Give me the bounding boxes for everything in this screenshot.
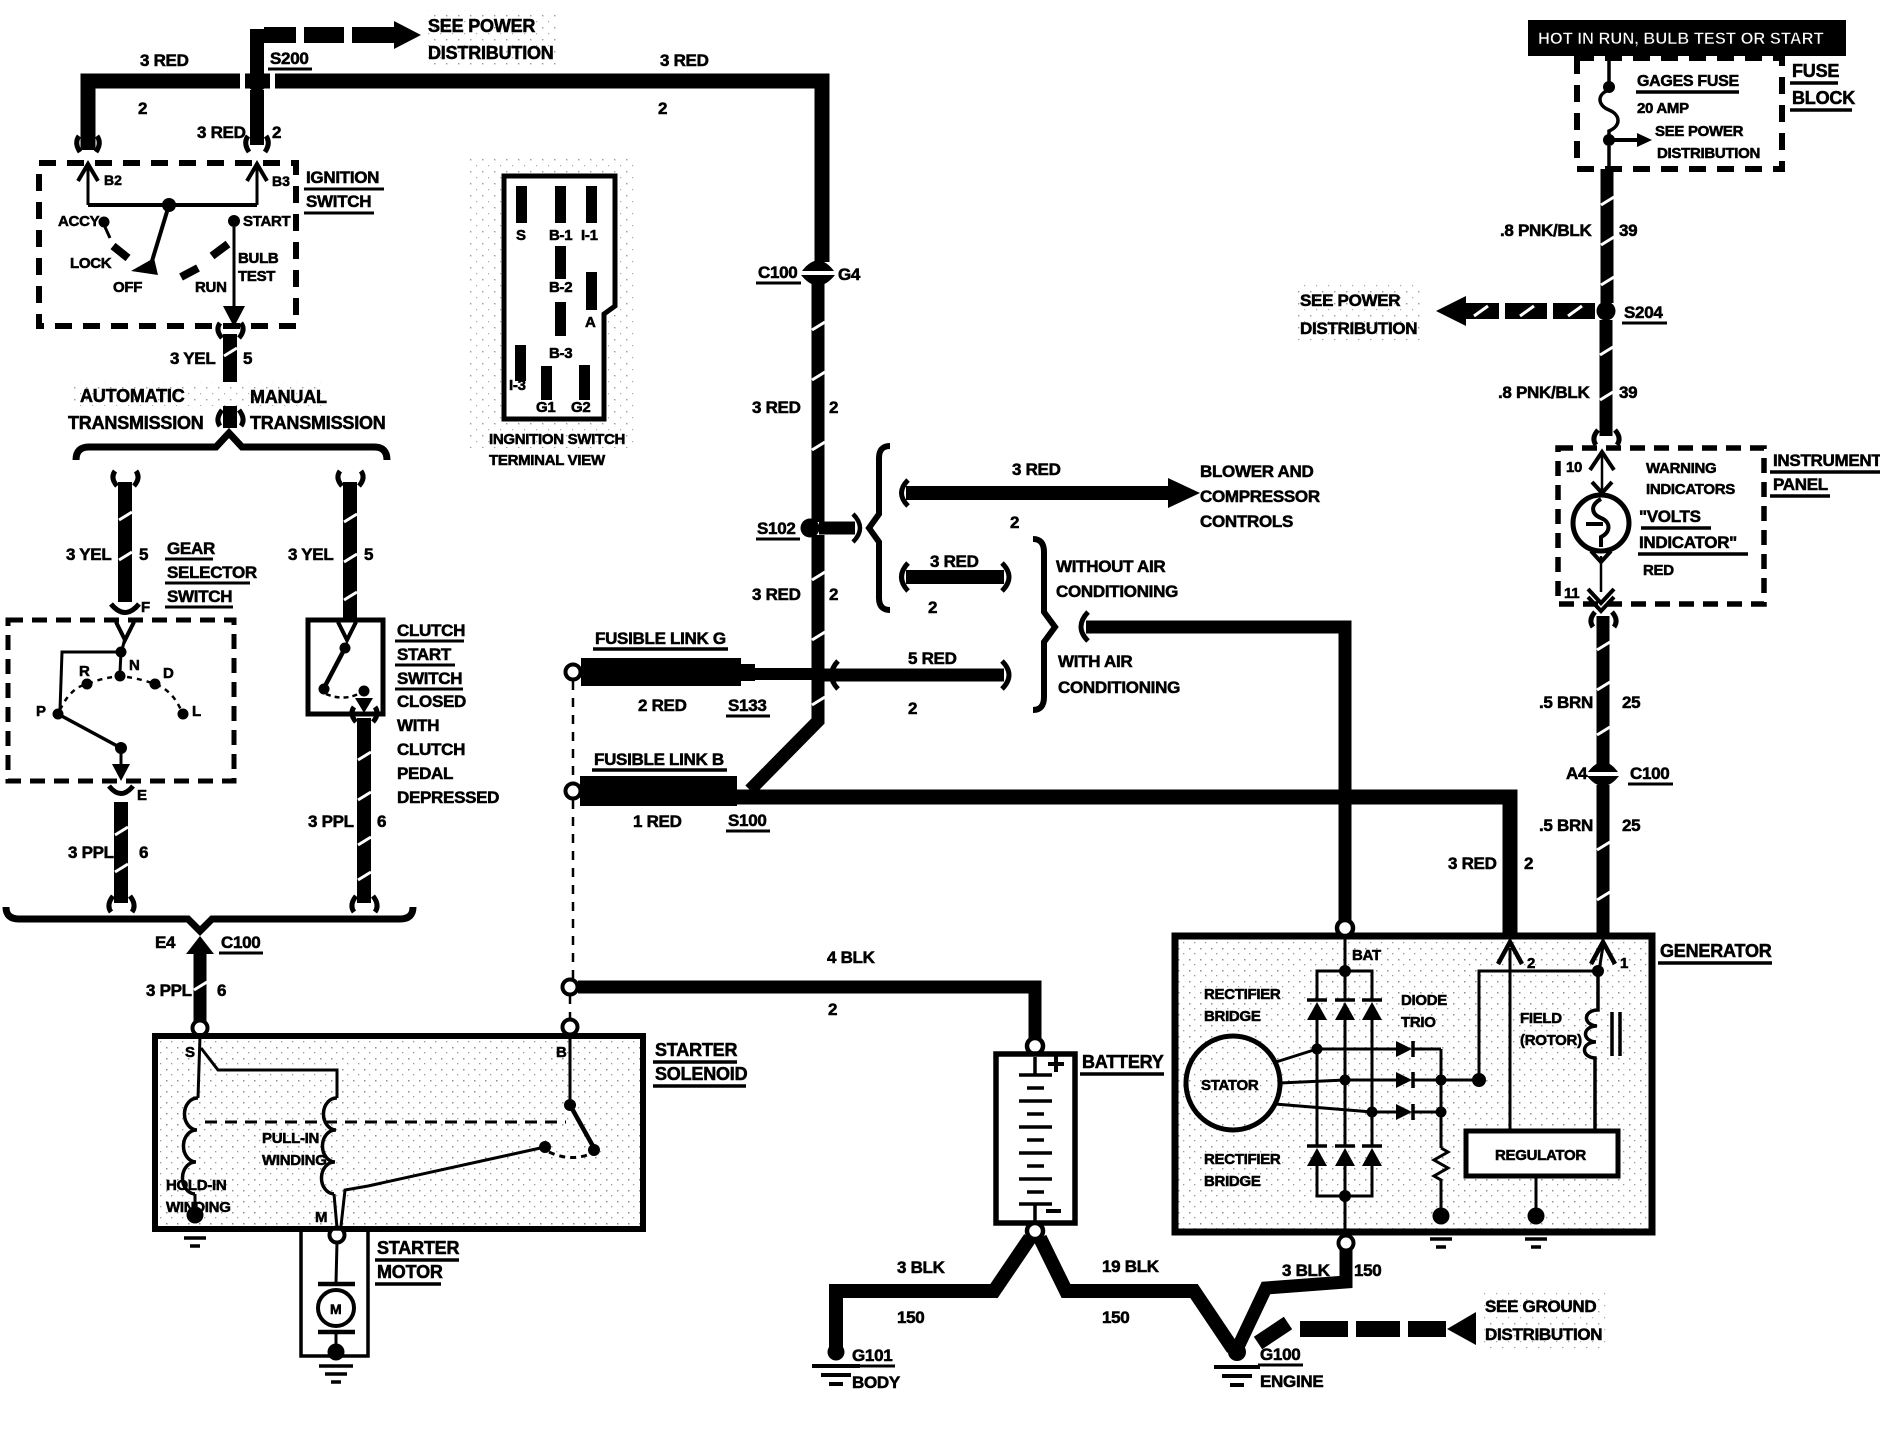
svg-text:I-3: I-3 [509,377,526,394]
svg-text:INDICATORS: INDICATORS [1646,481,1735,498]
svg-text:TRANSMISSION: TRANSMISSION [68,413,204,433]
svg-text:WITH AIR: WITH AIR [1058,652,1132,671]
ground G101 [828,1344,845,1361]
svg-text:N: N [129,657,140,674]
ground starter motor [335,1334,338,1352]
stator circle [1186,1036,1280,1130]
svg-text:FUSIBLE LINK B: FUSIBLE LINK B [594,750,724,769]
wire .8 PNK/BLK fuse to S204 [1607,146,1611,169]
svg-text:BLOWER AND: BLOWER AND [1200,462,1313,481]
slip rings [1610,1012,1614,1056]
battery plus sign [1048,1056,1064,1072]
wire stub up from S200 [250,29,264,74]
svg-text:FIELD: FIELD [1520,1010,1562,1027]
svg-text:MANUAL: MANUAL [250,387,327,407]
rectifier bridge bottom rail [1317,1166,1372,1196]
svg-text:2 RED: 2 RED [638,696,687,715]
brace S102 fan-out [869,446,890,610]
svg-text:S: S [185,1044,195,1061]
svg-text:WINDING: WINDING [262,1152,327,1169]
svg-text:RECTIFIER: RECTIFIER [1204,1151,1281,1168]
svg-text:RUN: RUN [195,279,227,296]
rectifier bridge top rail [1317,971,1372,999]
terminal 1 arrow [1591,942,1615,964]
arrow 5 RED (with air conditioning) [820,669,1004,682]
svg-text:G1: G1 [536,399,555,416]
gear selector switch box (dashed) [8,620,234,781]
svg-text:B-2: B-2 [549,279,572,296]
svg-text:150: 150 [897,1308,924,1327]
svg-text:3 RED: 3 RED [1448,854,1497,873]
svg-text:F: F [141,599,150,616]
svg-text:C100: C100 [758,263,797,282]
svg-text:SWITCH: SWITCH [306,192,371,211]
wire 3 PPL from C100 to starter solenoid S [194,954,207,1021]
svg-text:B: B [556,1044,567,1061]
svg-text:5 RED: 5 RED [908,649,957,668]
svg-text:G2: G2 [571,399,590,416]
starter solenoid box [155,1036,643,1229]
diode trio (three diodes) [1317,1041,1441,1120]
svg-text:3 RED: 3 RED [752,398,801,417]
svg-text:SEE GROUND: SEE GROUND [1485,1297,1596,1316]
wire no.2 to regulator [1509,948,1512,1131]
connector A4 / C100 [1588,762,1618,772]
svg-text:GAGES FUSE: GAGES FUSE [1637,73,1740,90]
arrow see power distribution (in fuse block) [1613,138,1638,142]
svg-text:5: 5 [243,349,252,368]
svg-text:6: 6 [377,812,386,831]
wire contact to M terminal [341,1147,545,1226]
contact START [228,215,240,227]
contact LOCK [113,246,128,258]
arrow F into box [116,622,134,640]
wire 2 RED link G to trunk [755,668,822,680]
svg-text:2: 2 [272,123,281,142]
svg-text:B2: B2 [104,172,122,188]
dashed mechanical link [205,1121,566,1124]
svg-text:IGNITION: IGNITION [306,168,379,187]
lower rectifier diodes [1307,1146,1382,1166]
svg-text:3 RED: 3 RED [660,51,709,70]
svg-text:COMPRESSOR: COMPRESSOR [1200,487,1320,506]
svg-text:2: 2 [658,99,667,118]
svg-text:2: 2 [928,598,937,617]
wire 3 RED drop from S200 to ignition switch B3 [250,90,264,145]
svg-text:DEPRESSED: DEPRESSED [397,788,499,807]
wire bridge to case exit [1344,1196,1347,1236]
terminal B3 arrow into ignition switch [247,164,290,205]
terminal ring generator ground exit [1339,1236,1354,1251]
svg-text:MOTOR: MOTOR [377,1262,443,1282]
svg-text:A4: A4 [1566,764,1588,783]
svg-text:BLOCK: BLOCK [1792,88,1855,108]
svg-text:25: 25 [1622,816,1640,835]
upper rectifier diodes [1307,1000,1382,1020]
svg-text:SWITCH: SWITCH [167,587,232,606]
svg-text:S: S [516,227,526,244]
svg-text:CLUTCH: CLUTCH [397,740,465,759]
svg-text:CONDITIONING: CONDITIONING [1058,678,1180,697]
svg-text:E: E [137,787,147,804]
diode trio output rail [1440,1049,1443,1148]
svg-text:C100: C100 [221,933,260,952]
label WITHOUT AIR CONDITIONING [1056,557,1178,601]
svg-text:B3: B3 [272,173,290,189]
fuse element [1600,90,1618,137]
svg-text:STATOR: STATOR [1201,1077,1259,1094]
svg-text:PANEL: PANEL [1773,475,1828,494]
svg-text:FUSE: FUSE [1792,61,1839,81]
svg-text:INGNITION SWITCH: INGNITION SWITCH [489,431,625,448]
terminal ring fusible link B [566,784,581,799]
wire 3 RED top feed from S200 to ignition switch B2 (horizontal trunk) [88,81,822,262]
svg-text:BAT: BAT [1352,947,1381,964]
wire into gages fuse [1607,56,1611,84]
brace with/without AC [1033,539,1055,710]
svg-text:19 BLK: 19 BLK [1102,1257,1160,1276]
svg-text:CONDITIONING: CONDITIONING [1056,582,1178,601]
svg-text:I-1: I-1 [581,227,598,244]
label STARTER SOLENOID [653,1040,748,1086]
gear selector wiper arm P to pivot [58,714,121,748]
svg-text:BRIDGE: BRIDGE [1204,1008,1261,1025]
wire S to pull-in winding [201,1048,337,1098]
wire flare at B3 wire end [246,136,269,152]
arrow into clutch switch [338,622,356,640]
terminal B2 arrow into ignition switch [78,164,122,205]
starter motor armature M [318,1282,355,1287]
svg-text:TEST: TEST [238,268,275,285]
wire START to box exit [233,227,236,310]
terminal S ring [193,1021,208,1036]
svg-text:11: 11 [1564,585,1579,602]
wire B to solenoid contact [569,1036,572,1103]
hold-in winding coil [182,1098,198,1194]
wire M to motor [336,1242,337,1283]
wire 19 BLK battery to G100 [1040,1238,1233,1349]
svg-text:CLUTCH: CLUTCH [397,621,465,640]
svg-text:1: 1 [1620,955,1628,972]
node stator-bridge junctions [1312,1044,1323,1055]
svg-text:HOLD-IN: HOLD-IN [166,1177,226,1194]
label GEAR SELECTOR SWITCH [165,539,257,607]
connector C100 / G4 on main trunk [802,261,834,272]
clutch switch contact left [319,684,330,695]
label CLUTCH START SWITCH CLOSED WITH CLUTCH PEDAL DEPRESSED [395,621,499,807]
svg-text:2: 2 [138,99,147,118]
svg-text:3 RED: 3 RED [197,123,246,142]
svg-text:S102: S102 [757,519,796,538]
svg-text:G4: G4 [838,265,861,284]
label STARTER MOTOR [375,1238,459,1284]
svg-text:4 BLK: 4 BLK [827,948,876,967]
ground hold-in winding [194,1194,197,1218]
svg-text:D: D [163,665,174,682]
svg-text:WARNING: WARNING [1646,460,1716,477]
wire 3 BLK battery to G101 [836,1238,1030,1348]
svg-text:2: 2 [1527,955,1535,972]
svg-text:INSTRUMENT: INSTRUMENT [1773,451,1880,470]
svg-text:START: START [243,213,291,230]
svg-text:DISTRIBUTION: DISTRIBUTION [428,43,554,63]
svg-text:2: 2 [829,398,838,417]
wire 3 YEL to clutch start switch (manual) [338,471,363,486]
wire trio to field node [1441,1079,1479,1082]
contact RUN [181,268,198,277]
bridge columns [1316,1020,1319,1146]
svg-text:START: START [397,645,452,664]
fusible link B body [580,776,737,806]
arrow 3 RED to blower and compressor controls [902,480,909,506]
terminal E connector cup [109,786,133,794]
svg-text:S100: S100 [728,811,767,830]
wire to P contact (L path) [60,652,121,710]
svg-text:DISTRIBUTION: DISTRIBUTION [1657,145,1760,162]
svg-text:S204: S204 [1624,303,1663,322]
contact N [115,671,126,682]
splice S200 [240,72,245,90]
svg-text:PULL-IN: PULL-IN [262,1130,319,1147]
svg-text:GEAR: GEAR [167,539,215,558]
label BLOWER AND COMPRESSOR CONTROLS [1200,462,1320,531]
dashed arrow SEE GROUND DISTRIBUTION [1258,1312,1476,1345]
label AUTOMATIC TRANSMISSION [74,382,324,406]
node ignition rotor feed [162,198,176,212]
svg-text:.5 BRN: .5 BRN [1539,693,1593,712]
svg-text:3 RED: 3 RED [752,585,801,604]
dashed throw arc [326,692,362,698]
wire .5 BRN panel to C100 [1591,612,1616,627]
svg-text:3 YEL: 3 YEL [288,545,333,564]
banner HOT IN RUN, BULB TEST OR START [1528,20,1846,56]
svg-text:WITHOUT AIR: WITHOUT AIR [1056,557,1165,576]
generator box [1175,936,1652,1232]
svg-text:ENGINE: ENGINE [1260,1372,1323,1391]
pin B-1 [555,186,566,223]
svg-text:39: 39 [1619,383,1637,402]
wire 3 PPL from E [114,802,128,903]
svg-text:STARTER: STARTER [377,1238,459,1258]
svg-text:G100: G100 [1260,1345,1300,1364]
svg-text:3 PPL: 3 PPL [68,843,114,862]
regulator box [1466,1131,1618,1176]
label SEE GROUND DISTRIBUTION [1480,1290,1610,1348]
ignition switch box (dashed) [39,163,296,326]
terminal BAT ring [1337,920,1353,936]
label INSTRUMENT PANEL [1770,451,1880,496]
pull-in winding coil [321,1098,337,1194]
terminal F connector cup [111,604,139,613]
clutch start switch box [308,620,383,714]
svg-text:B-1: B-1 [549,227,572,244]
wire pivot to E exit [120,748,123,766]
starter motor housing [301,1229,368,1356]
instrument panel box (dashed) [1558,448,1764,604]
svg-text:6: 6 [217,981,226,1000]
svg-text:C100: C100 [1630,764,1669,783]
svg-text:S133: S133 [728,696,767,715]
svg-text:.8 PNK/BLK: .8 PNK/BLK [1500,221,1592,240]
svg-text:2: 2 [1524,854,1533,873]
svg-text:150: 150 [1102,1308,1129,1327]
svg-text:3 RED: 3 RED [140,51,189,70]
svg-text:DIODE: DIODE [1401,992,1447,1009]
svg-text:2: 2 [908,699,917,718]
svg-text:2: 2 [829,585,838,604]
svg-text:3 RED: 3 RED [1012,460,1061,479]
wire internal bus B2-B3 [88,203,257,207]
stator phase wires [1276,1049,1317,1062]
ignition switch terminal view box [468,158,638,448]
stub S102 to brace [819,522,855,535]
ground G100 [1228,1343,1246,1361]
svg-text:3 RED: 3 RED [930,552,979,571]
wire 3 BLK generator to G100 [1239,1250,1346,1345]
svg-text:1 RED: 1 RED [633,812,682,831]
battery minus sign [1046,1209,1061,1213]
svg-text:150: 150 [1354,1261,1381,1280]
contact R [82,679,93,690]
label WITH AIR CONDITIONING [1058,652,1180,697]
pin S [516,186,527,223]
svg-text:2: 2 [1010,513,1019,532]
svg-text:3 BLK: 3 BLK [897,1258,946,1277]
pin A [586,272,597,310]
svg-text:REGULATOR: REGULATOR [1495,1147,1586,1164]
pin G1 [541,366,552,400]
svg-text:INDICATOR": INDICATOR" [1639,533,1737,552]
field (rotor) coil [1584,971,1598,1131]
svg-text:25: 25 [1622,693,1640,712]
wire BAT to rectifier rail [1344,936,1347,970]
svg-text:3 PPL: 3 PPL [146,981,192,1000]
wire field node up and over to no.1 [1479,971,1598,1080]
svg-text:BATTERY: BATTERY [1082,1052,1164,1072]
svg-text:3 YEL: 3 YEL [66,545,111,564]
label SEE POWER DISTRIBUTION (top left) [424,10,556,66]
ground regulator [1535,1176,1538,1212]
terminal 2 arrow [1498,942,1522,964]
svg-text:.5 BRN: .5 BRN [1539,816,1593,835]
svg-text:20 AMP: 20 AMP [1637,100,1689,117]
battery - terminal ring [1027,1223,1043,1239]
svg-text:RECTIFIER: RECTIFIER [1204,986,1281,1003]
solenoid moving contact [570,1105,594,1148]
svg-text:FUSIBLE LINK G: FUSIBLE LINK G [595,629,726,648]
battery box [996,1054,1075,1223]
svg-text:10: 10 [1566,459,1582,476]
svg-text:R: R [79,663,90,680]
wire .5 BRN C100 to generator no.1 [1597,785,1610,938]
svg-text:M: M [315,1209,327,1226]
pivot node [115,742,127,754]
svg-text:2: 2 [828,1000,837,1019]
wire 3 PPL below clutch switch [352,707,377,722]
contact P [53,709,64,720]
svg-text:39: 39 [1619,221,1637,240]
svg-text:.8 PNK/BLK: .8 PNK/BLK [1498,383,1590,402]
splice S102 [801,519,820,538]
svg-text:GENERATOR: GENERATOR [1660,941,1772,961]
svg-text:BRIDGE: BRIDGE [1204,1173,1261,1190]
svg-text:OFF: OFF [113,279,142,296]
dashed contact arc P-R-N-D-L [60,676,181,710]
wire 1 RED long run to generator no.2 [737,797,1510,938]
wire pull-in to M [334,1194,337,1228]
wire 3 RED trunk C100 to S102 [812,284,825,522]
terminal B ring [563,1020,578,1035]
contact L [178,709,189,720]
fusible link G body [581,658,741,686]
svg-text:SOLENOID: SOLENOID [655,1064,748,1084]
svg-text:3 BLK: 3 BLK [1282,1261,1331,1280]
node gear selector input [122,638,125,650]
svg-text:PEDAL: PEDAL [397,764,453,783]
svg-text:AUTOMATIC: AUTOMATIC [80,386,185,406]
svg-text:RED: RED [1643,562,1674,579]
resistor diode trio to ground [1434,1148,1448,1210]
svg-text:BODY: BODY [852,1373,901,1392]
svg-text:5: 5 [139,545,148,564]
svg-text:6: 6 [139,843,148,862]
svg-text:"VOLTS: "VOLTS [1639,507,1701,526]
svg-text:A: A [585,314,596,331]
wire flare bottom of 3 YEL [218,410,243,426]
terminal 11 [1600,556,1603,592]
dashed arrow SEE POWER DISTRIBUTION (S204) [1436,296,1595,326]
clutch switch contact top [340,643,351,654]
contact BULB TEST [212,244,228,256]
wire S to hold-in winding [198,1036,200,1098]
wire flare below ignition switch [218,323,243,338]
wire to N contact [120,652,121,672]
svg-text:M: M [330,1301,342,1317]
wire 4 BLK to battery [578,987,1035,1038]
pin I-3 [515,345,526,381]
svg-text:SWITCH: SWITCH [397,669,462,688]
splice S204 [1597,302,1616,321]
brace merge to E4 [6,907,413,931]
junction ring 4 BLK [563,980,578,995]
svg-text:L: L [192,703,201,720]
svg-text:STARTER: STARTER [655,1040,737,1060]
svg-text:5: 5 [364,545,373,564]
svg-text:CLOSED: CLOSED [397,692,466,711]
dashed arrow SEE POWER DISTRIBUTION (top left) [264,21,421,49]
label IGNITION SWITCH [304,168,384,213]
terminal ring fusible link G [566,665,581,680]
svg-text:HOT IN RUN, BULB TEST OR START: HOT IN RUN, BULB TEST OR START [1538,30,1824,48]
svg-text:SELECTOR: SELECTOR [167,563,257,582]
pin I-1 [586,186,597,223]
svg-text:E4: E4 [155,933,176,952]
svg-text:G101: G101 [852,1346,892,1365]
wire .8 PNK/BLK S204 to instrument panel [1600,320,1613,436]
wire 3 RED trunk S102 down to fusible link junction [750,535,818,790]
contact ACCY [99,217,110,228]
dashed wire fusible links to solenoid B [572,681,575,782]
fuse block box (dashed) [1577,58,1782,169]
battery + terminal ring [1027,1038,1043,1054]
svg-text:3 YEL: 3 YEL [170,349,215,368]
volts indicator bulb [1592,482,1612,493]
svg-text:TRANSMISSION: TRANSMISSION [250,413,386,433]
arrow 3 RED (without air conditioning) [902,563,909,591]
contact D [150,679,161,690]
svg-text:WITH: WITH [397,716,439,735]
svg-text:CONTROLS: CONTROLS [1200,512,1293,531]
